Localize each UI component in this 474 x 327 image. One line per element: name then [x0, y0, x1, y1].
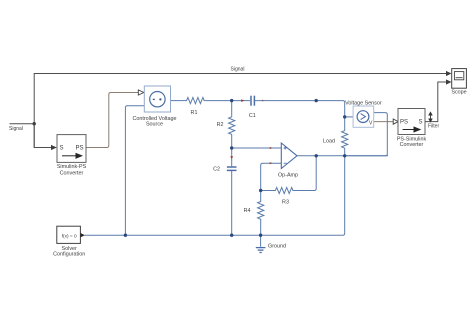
svg-text:Simulink-PS: Simulink-PS: [57, 164, 87, 170]
svg-text:R2: R2: [217, 122, 224, 128]
svg-text:Scope: Scope: [451, 90, 466, 96]
svg-text:Voltage Sensor: Voltage Sensor: [345, 101, 382, 107]
svg-text:C2: C2: [213, 167, 220, 173]
svg-text:R4: R4: [244, 208, 251, 214]
svg-text:Filter: Filter: [428, 123, 439, 129]
svg-text:Converter: Converter: [60, 171, 84, 177]
svg-text:Ground: Ground: [268, 244, 286, 250]
svg-text:R3: R3: [282, 200, 289, 206]
svg-text:Signal: Signal: [231, 67, 245, 73]
svg-text:R1: R1: [191, 110, 198, 116]
svg-text:Load: Load: [323, 139, 335, 145]
svg-text:Configuration: Configuration: [53, 252, 85, 258]
svg-text:PS: PS: [400, 120, 408, 126]
svg-text:PS: PS: [75, 146, 83, 152]
svg-text:Op-Amp: Op-Amp: [278, 173, 298, 179]
svg-text:S: S: [60, 146, 64, 152]
svg-text:S: S: [418, 120, 422, 126]
svg-text:C1: C1: [249, 113, 256, 119]
svg-text:Source: Source: [146, 122, 163, 128]
svg-text:Signal: Signal: [9, 126, 23, 132]
svg-text:Converter: Converter: [400, 142, 424, 148]
svg-text:f(x) = 0: f(x) = 0: [62, 233, 77, 239]
